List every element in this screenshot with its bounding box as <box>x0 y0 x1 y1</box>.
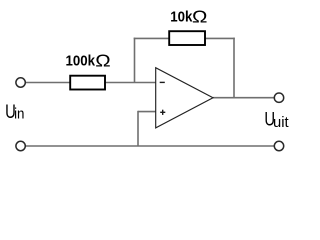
wire input segment from terminal to R1 <box>25 82 70 84</box>
terminal input bottom circle <box>16 141 25 150</box>
op-amp non-inverting input plus sign <box>160 111 165 113</box>
wire feedback top right segment from R2 <box>205 37 235 39</box>
wire feedback right vertical down to output <box>233 38 235 98</box>
terminal output bottom circle <box>274 141 283 150</box>
wire feedback top left segment to R2 <box>134 37 169 39</box>
resistor R2 10k ohm <box>169 31 205 45</box>
wire from R1 to op-amp inverting input <box>105 82 156 84</box>
wire bottom ground rail <box>25 145 274 147</box>
op-amp inverting input minus sign <box>160 81 165 83</box>
svg-text:10k: 10k <box>170 8 192 25</box>
terminal input top circle <box>16 78 25 87</box>
resistor R1 100k ohm <box>70 76 105 90</box>
wire non-inverting input horizontal <box>138 111 156 113</box>
terminal output top circle <box>274 93 283 102</box>
wire non-inverting vertical down to ground rail <box>137 111 139 146</box>
wire feedback vertical at node between R1 and op-amp <box>134 38 136 83</box>
svg-text:100k: 100k <box>66 52 96 69</box>
svg-text:in: in <box>14 105 24 122</box>
svg-text:Ω: Ω <box>95 52 110 71</box>
op-amp U1 triangle <box>156 68 213 128</box>
wire output from op-amp to terminal <box>213 97 274 99</box>
svg-text:Ω: Ω <box>192 8 207 27</box>
label U_uit <box>264 108 288 131</box>
label U_in <box>5 100 24 123</box>
svg-text:uit: uit <box>273 115 289 131</box>
